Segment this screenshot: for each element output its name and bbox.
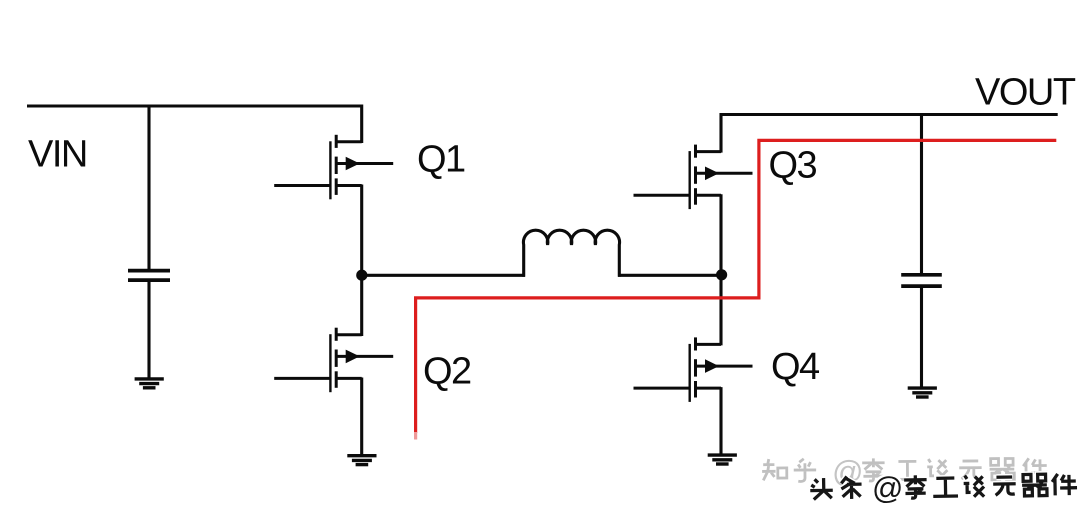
svg-text:Q4: Q4 bbox=[771, 346, 820, 388]
svg-text:@: @ bbox=[872, 470, 904, 506]
svg-text:Q3: Q3 bbox=[769, 144, 817, 186]
svg-text:VOUT: VOUT bbox=[975, 72, 1076, 114]
svg-text:Q2: Q2 bbox=[423, 351, 471, 393]
svg-text:Q1: Q1 bbox=[417, 138, 465, 180]
svg-text:VIN: VIN bbox=[28, 134, 87, 176]
